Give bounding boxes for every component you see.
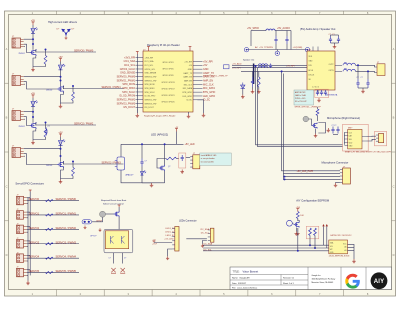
connector J12 servo body: [17, 254, 24, 263]
wire R10 to bus: [258, 71, 260, 77]
wire resistor to gate node: [72, 162, 74, 168]
led module D10 pads: [115, 160, 117, 162]
svg-text:LED1_R: LED1_R: [165, 228, 174, 230]
svg-text:GPIO16 GPIO17: GPIO16 GPIO17: [161, 88, 174, 90]
wire pin arrow 1 down: [323, 226, 325, 245]
svg-text:Required Reset from Boot: Required Reset from Boot: [101, 199, 127, 202]
wire header right ground: [197, 100, 203, 113]
svg-text:GPIO24 GPIO25: GPIO24 GPIO25: [161, 102, 174, 104]
svg-text:C: C: [6, 184, 8, 188]
wire servo row 0 net: [27, 200, 79, 202]
junction esd common: [65, 33, 67, 35]
wire R13 to sda: [309, 236, 311, 246]
capacitor C23 led: [140, 159, 143, 167]
ground below header left: [136, 113, 140, 117]
svg-text:SERVO0 / PWM0: SERVO0 / PWM0: [74, 50, 94, 53]
svg-text:B: B: [393, 116, 395, 120]
capacitor C11: [285, 36, 288, 44]
svg-text:UART_TX: UART_TX: [183, 72, 192, 75]
svg-text:C?: C?: [109, 258, 111, 260]
wire drain Q3 to net: [35, 123, 37, 126]
sheet connector arrow 2: [120, 268, 125, 273]
wire led loop left: [120, 144, 122, 157]
ground below header right: [202, 113, 206, 117]
wire button down: [92, 217, 103, 222]
wire snub gnd rail: [358, 87, 368, 89]
wire +5V led rail: [176, 132, 178, 145]
led D4: [58, 140, 65, 146]
led D1: [31, 28, 38, 34]
svg-text:J?: J?: [17, 267, 19, 269]
ic U2 audio amplifier body: [307, 51, 335, 90]
wire resistor to gate node: [45, 123, 47, 129]
svg-text:FB?: FB?: [344, 69, 347, 71]
svg-text:+5V: +5V: [58, 132, 63, 134]
svg-text:SEL: SEL: [349, 139, 352, 141]
junction drain-resistor: [72, 85, 74, 87]
connector J? driver input 1: [12, 38, 21, 48]
svg-text:LED1_G: LED1_G: [165, 232, 174, 234]
ferrite bead FB1 body: [266, 29, 275, 31]
svg-text:SCL: SCL: [330, 246, 333, 248]
svg-text:SERVO4: SERVO4: [29, 255, 40, 259]
svg-text:2N7002: 2N7002: [19, 53, 25, 55]
connector J4 microphone body: [343, 168, 351, 184]
wire servo 5v pin 0: [27, 197, 31, 199]
wire C10 bottom: [275, 44, 277, 50]
wire Q6 drain to wp: [297, 228, 299, 251]
resistor R21 servo: [46, 271, 54, 273]
ground driver 4: [59, 180, 63, 184]
wire source Q3 to ground: [33, 129, 36, 141]
transistor Q6 eeprom wp: [294, 222, 300, 228]
wire aux gnd: [203, 241, 207, 244]
wire LED to drain Q3: [32, 105, 34, 123]
svg-text:SPI0_SCLK: SPI0_SCLK: [122, 91, 135, 94]
svg-text:2N7002: 2N7002: [46, 90, 52, 92]
svg-text:LED (APA102): LED (APA102): [151, 133, 168, 137]
resistor R11 pullup: [316, 109, 319, 116]
wire R15 to dnp box: [177, 158, 179, 160]
note box led info: [200, 153, 232, 165]
wire servo row 5 net: [27, 272, 79, 274]
pin OUTP amp: [335, 64, 342, 66]
wire connector pin 4 stub: [24, 83, 25, 85]
connector J6 leds body: [175, 227, 179, 252]
wire R11 top to label row: [317, 107, 319, 109]
svg-text:OUTP: OUTP: [329, 64, 335, 66]
svg-text:+5V_SPKR: +5V_SPKR: [247, 28, 259, 30]
connector J11 servo body: [17, 240, 24, 249]
wire mic riser: [343, 132, 345, 144]
wire C23 to D11: [141, 167, 143, 172]
wire R11 to Q5 drain: [317, 116, 319, 122]
wire drain output to label: [36, 124, 96, 126]
push button SW2 body: [303, 116, 309, 122]
svg-text:+5V_LED: +5V_LED: [185, 144, 195, 146]
pin 11 left of header: [136, 76, 144, 78]
resistor R18 servo: [46, 228, 54, 230]
wire connector pin 1 to supply node: [24, 38, 33, 40]
border column tick: [151, 11, 153, 15]
sheet entry pin arrow 1: [322, 224, 324, 226]
ground C13: [251, 90, 255, 94]
transistor Q3 2N7002: [30, 122, 36, 129]
junction at LED cathode node: [60, 80, 62, 82]
wire TP2 stub: [276, 50, 278, 52]
junction wp q6: [297, 250, 299, 252]
svg-text:SERVO2_PWM2: SERVO2_PWM2: [117, 98, 136, 101]
connector J3 speaker body: [377, 64, 385, 76]
svg-text:A: A: [393, 47, 395, 51]
wire connector to gate: [24, 82, 57, 89]
border column tick: [103, 11, 105, 15]
ferrite bead FB2 out: [343, 63, 355, 65]
svg-text:C?: C?: [145, 161, 147, 163]
svg-text:+5V_RPI: +5V_RPI: [203, 60, 213, 63]
svg-text:SERVO1_PWM1: SERVO1_PWM1: [117, 79, 136, 82]
svg-text:C? C?: C? C?: [329, 34, 335, 36]
wire bus line 1: [232, 64, 307, 66]
svg-text:AMP_EN: AMP_EN: [203, 79, 213, 82]
power +3V3 header rail: [136, 52, 139, 55]
connector J9 servo body: [17, 211, 24, 220]
pin 20 right of header: [193, 95, 203, 97]
isolation outline around optocoupler: [104, 229, 133, 252]
esd dual diode D5 leg left: [62, 29, 67, 34]
wire resistor bottom to ground rail: [61, 176, 74, 179]
svg-text:I2S_DOUT: I2S_DOUT: [123, 106, 135, 109]
wire connector pin 1 to supply node: [24, 148, 61, 150]
svg-text:C? C?: C? C?: [332, 125, 337, 127]
wire button to Q5 gate: [309, 119, 312, 126]
pin 5 left of header: [136, 64, 144, 66]
wire caps top rail: [331, 34, 339, 36]
wire servo 5v pin 4: [27, 254, 31, 256]
svg-text:SERVO0: SERVO0: [29, 197, 40, 201]
no-connect marker blue: [224, 65, 230, 69]
transistor Q1 2N7002: [30, 49, 36, 56]
svg-text:(5V) Audio Amp / Speaker Out: (5V) Audio Amp / Speaker Out: [300, 27, 336, 31]
svg-text:+5V_RPI: +5V_RPI: [286, 65, 295, 67]
svg-text:or use pin header: or use pin header: [201, 158, 215, 160]
svg-text:SERVO4 / PWM4: SERVO4 / PWM4: [56, 255, 77, 259]
wire +5V to led strip: [154, 242, 172, 244]
wire amp bottom pin stubs: [312, 90, 314, 93]
pin 23 left of header: [136, 99, 144, 101]
svg-text:for external LED: for external LED: [201, 160, 215, 163]
ground mic caps: [327, 128, 331, 132]
svg-text:SERVO2 / PWM2: SERVO2 / PWM2: [74, 123, 94, 126]
pin 14 right of header: [193, 83, 203, 85]
capacitor C20 optional: [324, 90, 327, 96]
wire drain Q4 to net: [62, 162, 64, 165]
esd dual diode D5 leg right: [66, 29, 71, 34]
junction supply node driver 2: [60, 76, 62, 78]
power +5V led section: [175, 129, 178, 132]
ground Q6: [295, 232, 299, 236]
power +5V driver 1: [32, 22, 35, 25]
svg-text:D: D: [6, 253, 8, 257]
pin OUTN amp: [335, 70, 342, 72]
svg-text:GAIN = 15dB: GAIN = 15dB: [295, 94, 306, 97]
border column tick: [247, 11, 249, 15]
border column tick: [199, 11, 201, 15]
svg-text:UART_TX: UART_TX: [203, 72, 214, 75]
ground snubbers: [361, 89, 365, 93]
border row tick: [5, 151, 9, 153]
wire button to Q8: [106, 213, 114, 215]
wire connector pin 4 stub: [24, 118, 25, 120]
svg-text:GPIO0 GPIO1: GPIO0 GPIO1: [162, 62, 173, 64]
svg-text:SPI0_MISO: SPI0_MISO: [122, 87, 135, 90]
svg-text:AIY Configuration EEPROM: AIY Configuration EEPROM: [296, 199, 329, 203]
wire Q6 source gnd: [295, 228, 297, 232]
svg-text:SERVO0_PW: SERVO0_PW: [145, 77, 157, 79]
pin 12 right of header: [193, 80, 203, 82]
svg-text:SPI0_MOSI: SPI0_MOSI: [122, 83, 135, 86]
pin mic left 4: [344, 141, 347, 143]
wire C11 bottom: [286, 44, 288, 50]
connector J7 aux body: [210, 228, 214, 242]
dnp region microphone jack: [374, 132, 386, 146]
svg-text:J?: J?: [17, 252, 19, 254]
pin 2 right of header: [193, 61, 203, 63]
wire dnp to led connector: [186, 157, 190, 159]
wire servo gnd pin 4: [27, 260, 28, 262]
svg-text:+3V3: +3V3: [296, 207, 300, 209]
svg-text:SPKR_GPIO01_+PWM_TP: SPKR_GPIO01_+PWM_TP: [203, 76, 228, 78]
junction supply node driver 3: [32, 111, 34, 113]
wire servo 5v pin 5: [27, 269, 31, 271]
dnp region eeprom pullups: [306, 226, 319, 239]
junction supply node driver 4: [60, 148, 62, 150]
svg-text:SERVO1: SERVO1: [29, 212, 40, 216]
optocoupler transistor glyph 2: [122, 236, 125, 244]
wire mic bus vertical 2: [257, 68, 342, 147]
power +5V driver 3: [32, 95, 35, 98]
wire servo gnd pin 5: [27, 274, 28, 276]
svg-text:SERVO3_PWM3: SERVO3_PWM3: [117, 102, 136, 105]
capacitor C22 mic: [336, 127, 339, 134]
svg-text:I2C1_SDA: I2C1_SDA: [124, 60, 136, 63]
wire servo gnd pin 3: [27, 246, 28, 248]
wire Q7 source down: [164, 171, 166, 183]
wire connector pin 4 stub: [24, 46, 25, 48]
svg-text:Q?: Q?: [168, 166, 170, 168]
svg-text:SERVO5: SERVO5: [29, 269, 40, 273]
solder jumper JP1 body: [82, 220, 92, 224]
wire amp bottom pin stub2: [317, 90, 319, 93]
svg-text:SPI0_MOSI: SPI0_MOSI: [145, 84, 155, 86]
ground eeprom right: [352, 259, 356, 263]
wire eeprom a1 right: [348, 249, 355, 251]
wire drain output to label: [36, 51, 96, 53]
junction mic conn feed2: [284, 178, 286, 180]
transistor Q2 2N7002: [57, 86, 63, 93]
wire servo 5v pin 1: [27, 211, 31, 213]
diode D9: [241, 83, 246, 89]
ground driver 2: [59, 104, 63, 108]
pin mic left 5: [344, 145, 347, 147]
wire mic conn feed 4: [285, 178, 341, 180]
ground aux connector: [201, 244, 204, 248]
svg-text:Servo/GPIO Connectors: Servo/GPIO Connectors: [15, 182, 44, 186]
wire Q8 top: [118, 207, 120, 211]
dnp region led filter: [179, 153, 186, 168]
wire Q6 down: [297, 228, 299, 232]
wire R10 gnd stub: [258, 87, 260, 90]
svg-text:1 2 3 4 5: 1 2 3 4 5: [312, 87, 319, 89]
resistor R13 sda pullup: [309, 228, 312, 236]
svg-text:SERVO1_PW: SERVO1_PW: [145, 80, 157, 82]
junction drain-resistor: [72, 161, 74, 163]
svg-text:SPI0_SCLK: SPI0_SCLK: [145, 92, 156, 94]
connector J? driver input 3: [12, 111, 21, 121]
wire aux long net: [186, 238, 207, 240]
inductor L2 on bus: [259, 66, 268, 68]
wire bus line 3: [241, 70, 307, 72]
svg-text:SWAP_L/R: SEL=GND RIGHT CH SE: SWAP_L/R: SEL=GND RIGHT CH SEL=VDD LEFT: [345, 150, 392, 153]
wire led rail horizontal: [121, 143, 184, 145]
wire led gnd rail: [142, 182, 165, 184]
wire Q7 gate net: [157, 159, 166, 169]
wire servo row 1 net: [27, 214, 79, 216]
transistor Q8 button: [114, 211, 120, 217]
pin 3 left of header: [136, 60, 144, 62]
svg-text:SERVO0 / PWM0: SERVO0 / PWM0: [56, 197, 77, 201]
led D2: [58, 64, 65, 70]
svg-text:OPTO?: OPTO?: [90, 236, 96, 238]
svg-text:GND_SENSE: GND_SENSE: [120, 72, 135, 75]
wire connector pin 1 to supply node: [24, 111, 33, 113]
wire caps gnd stub: [334, 43, 336, 45]
wire C11 top: [286, 31, 288, 37]
wire C16 to OUTP line: [357, 65, 359, 79]
power +5V led connector: [153, 241, 156, 243]
connector J? driver input 4: [12, 148, 21, 158]
resistor R2 gate pulldown: [72, 92, 75, 101]
wire output net stub Q4: [62, 162, 64, 165]
pin 4 right of header: [193, 64, 203, 66]
wire connector pin 1 to supply node: [24, 76, 61, 78]
svg-text:UART_RX: UART_RX: [183, 76, 193, 79]
svg-text:SERVO2 / PWM2: SERVO2 / PWM2: [56, 226, 77, 230]
connector J? driver input 2: [12, 76, 21, 86]
wire esd common down: [65, 34, 67, 37]
svg-text:+3V3_RPI: +3V3_RPI: [124, 56, 136, 59]
resistor R1 gate pulldown: [44, 56, 47, 65]
capacitor C16 snub: [356, 79, 359, 88]
wire down to testpoint row right: [290, 31, 292, 50]
wire servo gnd pin 1: [27, 217, 28, 219]
wire +5V to LED D4: [60, 137, 62, 140]
svg-text:A: A: [6, 47, 8, 51]
capacitor C19 optional: [320, 90, 323, 96]
svg-text:D: D: [393, 253, 395, 257]
svg-text:GPIO8 GPIO9: GPIO8 GPIO9: [162, 75, 173, 77]
connector J8 servo body: [17, 196, 24, 205]
note box amp settings: [294, 90, 314, 105]
wire resistor bottom to ground rail: [61, 101, 74, 104]
power +3V3 eeprom: [296, 209, 299, 212]
svg-text:+5V_RPI: +5V_RPI: [184, 61, 192, 63]
border column tick: [295, 11, 297, 15]
wire testpoint rail: [247, 49, 308, 51]
svg-text:C?: C?: [48, 126, 50, 128]
transistor Q6 body circle: [287, 220, 293, 226]
pin 6 right of header: [193, 68, 203, 70]
ground D9: [241, 95, 245, 99]
wire drain Q2 to net: [62, 86, 64, 89]
wire C23 top: [141, 144, 143, 158]
svg-text:File: voice_bonnet.SchDoc: File: voice_bonnet.SchDoc: [232, 287, 257, 290]
pin mic right out: [362, 136, 367, 138]
wire Q5 source gnd: [315, 129, 317, 134]
capacitor C18 optional: [316, 90, 319, 96]
resistor R19 servo: [46, 243, 54, 245]
testpoint TP3: [305, 48, 309, 52]
wire Q8 source down: [118, 217, 120, 229]
wire mic conn gnd: [336, 182, 340, 184]
wire mic bus vertical 4: [283, 74, 340, 174]
+5V rail servo connectors: [29, 191, 31, 275]
svg-text:SERVO0_PWM0: SERVO0_PWM0: [117, 75, 136, 78]
wire ferrite to +5V_AUDIO: [275, 30, 291, 32]
ic MK1 microphone body: [348, 129, 362, 149]
wire +5V to LED D3: [32, 98, 34, 101]
svg-text:J?: J?: [17, 224, 19, 226]
pin 10 right of header: [193, 76, 203, 78]
resistor R10 bus: [257, 77, 260, 87]
resistor R16 servo: [46, 199, 54, 201]
svg-text:SERVO1 / PWM1: SERVO1 / PWM1: [102, 86, 122, 89]
wire connector to gate: [24, 44, 30, 52]
svg-text:AMP SETUP:: AMP SETUP:: [295, 91, 306, 94]
resistor R3 gate pulldown: [44, 129, 47, 138]
svg-text:+5V: +5V: [203, 64, 208, 67]
power +5V servo rail: [29, 190, 32, 192]
svg-text:Revision: 01: Revision: 01: [283, 278, 295, 280]
wire connector pin 4 stub: [24, 155, 25, 157]
wire pin arrow 2 down: [326, 226, 328, 248]
svg-text:I2C_SCL: I2C_SCL: [201, 233, 210, 235]
wire eeprom scl: [203, 247, 329, 249]
wire servo row 3 net: [27, 243, 79, 245]
svg-text:FB?: FB?: [344, 62, 347, 64]
push button SW1 body: [100, 211, 106, 217]
wire FB3 to speaker: [356, 71, 378, 72]
pin 19 left of header: [136, 91, 144, 93]
testpoint TP2: [275, 51, 279, 55]
wire servo gnd pin 0: [27, 202, 28, 204]
svg-text:C? C?: C? C?: [357, 77, 363, 79]
title block lines: [230, 267, 366, 290]
power +5V driver 2: [59, 59, 62, 62]
svg-text:GPIO4_GCL: GPIO4_GCL: [145, 69, 156, 71]
svg-text:GND: GND: [203, 68, 209, 71]
svg-text:RaspberryPi_40-pin_GPIO_Header: RaspberryPi_40-pin_GPIO_Header: [144, 115, 176, 117]
junction mic conn feed: [284, 176, 286, 178]
resistor R15 led data: [166, 157, 177, 160]
wire D11 to gnd rail: [141, 175, 143, 183]
svg-text:I2S_DOUT: I2S_DOUT: [145, 107, 155, 109]
wire mic conn feed stub: [283, 174, 284, 180]
+3V3 rail left of header: [136, 54, 138, 113]
ground button row: [98, 228, 101, 231]
transistor Q4 2N7002: [57, 161, 63, 168]
svg-text:SERVO2_PW: SERVO2_PW: [145, 100, 157, 102]
